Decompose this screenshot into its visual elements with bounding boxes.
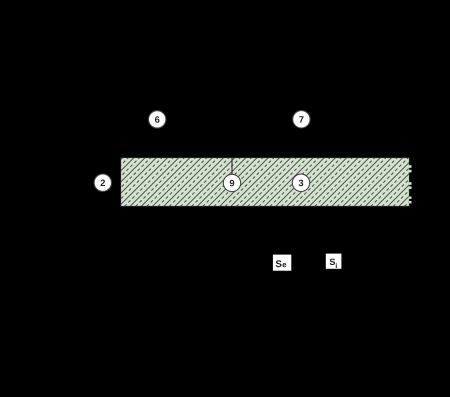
label Si (internal source) [326,254,342,269]
wall slab layer 3 (hatched absorber) [121,158,410,207]
right-edge break notches [409,165,412,203]
node 6 [149,111,166,128]
node 2 [94,174,111,191]
node 9 [223,174,240,191]
label Se (external source) [273,255,291,271]
node 3 [292,174,309,191]
node 7 [293,111,310,128]
leader line to node 9 [231,158,233,174]
hatch lines [52,158,450,207]
